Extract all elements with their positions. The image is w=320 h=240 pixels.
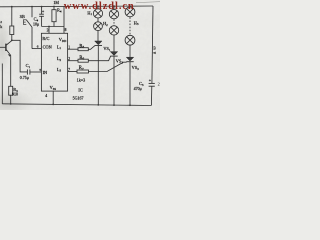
switch SB	[24, 7, 33, 49]
wire R2 bottom to collector node	[11, 35, 13, 41]
capacitor C3	[149, 83, 155, 86]
wire R/C pin stub	[48, 27, 50, 34]
svg-text:k: k	[0, 24, 2, 29]
wire emitter down	[10, 55, 12, 86]
svg-text:R6: R6	[79, 56, 84, 61]
svg-text:VS3: VS3	[132, 65, 140, 71]
label battery fragment 4	[153, 52, 156, 54]
transistor V1	[6, 41, 12, 57]
wire dashed lamp string col3	[129, 17, 131, 35]
wire left edge (cropped mic lead)	[1, 64, 3, 104]
junction top rail / lamp string H2	[113, 5, 115, 7]
lamp H2a	[109, 6, 118, 19]
svg-text:SB: SB	[20, 14, 25, 19]
svg-text:7: 7	[68, 68, 70, 72]
svg-text:8: 8	[65, 28, 67, 32]
svg-text:VS2: VS2	[116, 59, 124, 65]
wire collector node to C1 (down path)	[12, 40, 28, 72]
svg-text:910: 910	[12, 91, 18, 96]
junction top rail / R2	[11, 6, 13, 8]
svg-text:IC: IC	[78, 88, 82, 93]
svg-text:R7: R7	[79, 66, 84, 71]
lamp H1b	[94, 22, 103, 31]
svg-text:H2: H2	[103, 21, 108, 27]
page edge line (cropped)	[136, 1, 160, 4]
thyristor VS2	[110, 52, 117, 106]
resistor R2	[10, 26, 14, 35]
wire R6 to VS2 gate	[88, 56, 110, 61]
svg-text:L2: L2	[57, 56, 62, 62]
lamp H3b	[125, 35, 135, 45]
wire lamp to VS2 anode	[113, 35, 115, 52]
wire R7 to VS3 gate	[89, 62, 127, 71]
junction bottom rail / VS1 cathode	[97, 104, 99, 106]
wire L3 row	[68, 71, 77, 73]
resistor R3	[9, 86, 13, 95]
wire L2 row	[68, 60, 78, 62]
svg-text:VS1: VS1	[103, 46, 111, 52]
junction top rail / lamp string H1	[97, 5, 99, 7]
wire dashed lamp string col2	[113, 19, 115, 25]
junction top rail / SB	[31, 6, 33, 8]
svg-text:470μ: 470μ	[134, 86, 142, 91]
svg-text:4: 4	[45, 94, 47, 98]
capacitor C2	[39, 7, 44, 27]
wire R5 to VS1 gate	[88, 46, 95, 50]
svg-text:2: 2	[158, 81, 160, 86]
svg-text:www.dlzdl.cn: www.dlzdl.cn	[64, 1, 135, 12]
lamp H1a	[93, 6, 102, 18]
wire SB to CON pin	[32, 48, 41, 50]
svg-text:R4: R4	[57, 8, 62, 14]
wire VDD pin stub	[63, 6, 65, 33]
svg-text:H3: H3	[134, 20, 139, 26]
paper texture	[0, 0, 160, 110]
junction collector node	[11, 39, 13, 41]
wire C1 to IC IN pin	[30, 71, 41, 73]
wire base lead from left edge	[0, 46, 6, 48]
thyristor VS3	[126, 57, 133, 105]
wire right rail lower	[150, 86, 152, 105]
resistor R6	[78, 59, 88, 62]
svg-text:1k×3: 1k×3	[77, 77, 86, 82]
svg-text:IN: IN	[43, 70, 48, 75]
svg-text:1M: 1M	[53, 0, 59, 5]
capacitor C1	[27, 69, 30, 74]
svg-text:R/C: R/C	[42, 36, 49, 41]
resistor R7	[77, 70, 89, 73]
IC U1 box	[41, 33, 67, 91]
svg-text:L1: L1	[57, 44, 62, 50]
svg-text:C1: C1	[26, 63, 31, 69]
svg-text:3: 3	[47, 28, 49, 32]
svg-text:CON: CON	[43, 45, 52, 50]
junction bottom rail / VSS	[52, 104, 54, 106]
wire bottom rail	[2, 104, 151, 106]
junction bottom rail / R3	[10, 103, 12, 105]
wire VSS pin stub	[52, 92, 54, 105]
junction top rail / C4	[41, 6, 43, 8]
svg-text:5G167: 5G167	[73, 96, 84, 101]
wire lamp to VS1 anode	[97, 31, 99, 41]
junction R4-C4 node / R-C pin	[48, 26, 50, 28]
thyristor VS1	[95, 41, 102, 105]
svg-text:2: 2	[68, 57, 70, 61]
wire R2 top stem	[11, 7, 13, 26]
lamp H2b	[109, 26, 118, 35]
junction top rail / R4	[53, 6, 55, 8]
wire lamp to VS3 anode	[129, 45, 131, 57]
junction bottom rail / VS3 cathode	[129, 104, 131, 106]
svg-text:6: 6	[37, 45, 39, 49]
resistor R4	[52, 6, 56, 26]
wire L1 row	[68, 48, 78, 50]
junction top rail / lamp string H3	[129, 5, 131, 7]
junction dots	[10, 5, 131, 106]
svg-text:5: 5	[39, 68, 41, 72]
svg-text:1: 1	[68, 46, 70, 50]
wire right rail upper	[152, 6, 153, 83]
junction bottom rail / VS2 cathode	[113, 104, 115, 106]
svg-text:L3: L3	[57, 67, 62, 73]
resistor R5	[78, 48, 88, 51]
lamp H3a	[125, 6, 135, 17]
svg-text:0.75μ: 0.75μ	[20, 75, 29, 80]
wire R4/C2 node	[42, 26, 64, 28]
wire R3 to bottom rail	[10, 95, 12, 104]
wire top supply rail	[0, 5, 153, 8]
svg-text:10μ: 10μ	[33, 22, 39, 27]
wire lamp link col1	[97, 18, 99, 22]
svg-text:R5: R5	[79, 44, 84, 49]
